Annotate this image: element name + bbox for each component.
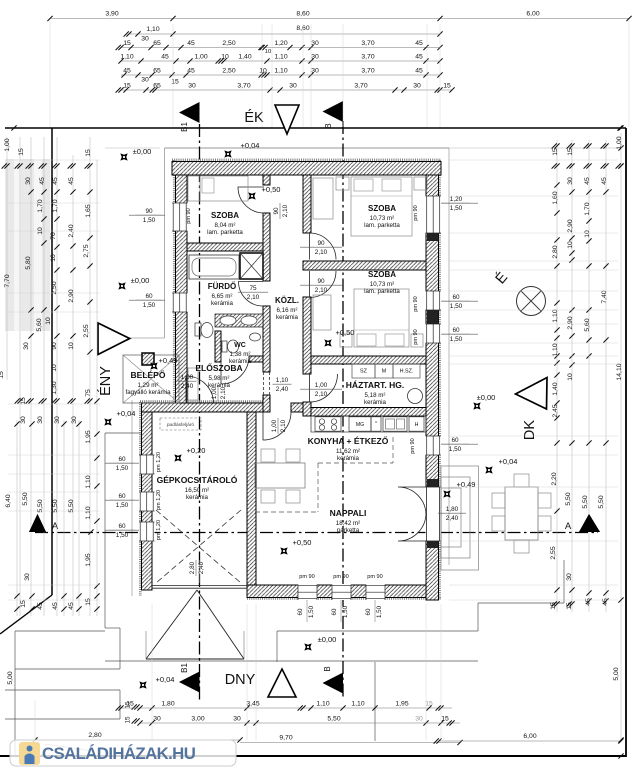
svg-text:45: 45: [52, 177, 59, 185]
svg-text:16,50 m²: 16,50 m²: [185, 487, 209, 494]
svg-text:7,70: 7,70: [4, 274, 11, 287]
svg-text:30: 30: [188, 83, 196, 90]
svg-text:1,10: 1,10: [351, 701, 364, 708]
svg-text:H.SZ.: H.SZ.: [400, 369, 414, 375]
svg-text:HÁZTART. HG.: HÁZTART. HG.: [346, 380, 404, 390]
window garage west 1: [139, 455, 155, 474]
bedroom2 bed: [354, 289, 409, 347]
svg-text:45: 45: [39, 177, 46, 185]
section line A-A: [35, 532, 598, 534]
wall bedroom2/haztartasi: [311, 356, 426, 364]
svg-text:45: 45: [187, 40, 195, 47]
svg-text:B: B: [323, 666, 332, 671]
wall KOZL west upper: [263, 175, 270, 185]
svg-text:6,40: 6,40: [5, 494, 12, 507]
svg-text:3,90: 3,90: [105, 11, 118, 18]
svg-text:1,29 m²: 1,29 m²: [138, 382, 159, 389]
svg-text:1,10: 1,10: [146, 26, 159, 33]
svg-text:30: 30: [289, 83, 297, 90]
entry steps line 1: [5, 689, 120, 691]
svg-text:60: 60: [365, 608, 372, 615]
svg-text:5,00: 5,00: [613, 667, 620, 680]
2,80 leader diagonal: [44, 744, 93, 751]
svg-text:+0,04: +0,04: [499, 457, 518, 466]
svg-text:H: H: [415, 422, 419, 428]
corner basin WC: [250, 333, 261, 341]
bedroom1 nightstands: [336, 177, 349, 190]
window right wall bedroom1 120: [426, 196, 442, 233]
wall garage east: [247, 412, 256, 585]
svg-text:60: 60: [331, 608, 338, 615]
svg-text:30: 30: [23, 342, 30, 350]
svg-text:45: 45: [37, 602, 44, 610]
toilet FURDO: [195, 323, 201, 336]
site boundary bottom: [0, 755, 626, 757]
site boundary left diagonal: [0, 595, 52, 634]
svg-text:2,80: 2,80: [189, 561, 196, 574]
boundary corner ticks: [11, 125, 16, 130]
svg-text:30: 30: [233, 716, 241, 723]
svg-text:30: 30: [311, 54, 319, 61]
svg-text:90: 90: [317, 240, 325, 247]
wall garage west: [142, 412, 153, 590]
svg-text:+0,49: +0,49: [457, 480, 476, 489]
svg-text:9,70: 9,70: [279, 735, 292, 742]
svg-text:45: 45: [161, 54, 169, 61]
svg-text:kerámia: kerámia: [211, 300, 234, 307]
window bottom wall nappali 1: [298, 585, 317, 601]
wall KOZL east seg4: [303, 402, 311, 416]
stove: [315, 417, 341, 431]
entry steps side: [119, 690, 121, 719]
svg-text:2,80: 2,80: [88, 732, 101, 739]
svg-text:3,70: 3,70: [361, 54, 374, 61]
eaves left bottom jog: [129, 337, 165, 339]
wall KOZL west mid: [263, 213, 270, 281]
svg-text:1,10: 1,10: [120, 54, 133, 61]
svg-text:1,70: 1,70: [584, 202, 591, 215]
site boundary top: [5, 127, 626, 129]
svg-text:15: 15: [441, 716, 449, 723]
svg-text:1,00: 1,00: [315, 382, 328, 389]
wall KOZL west bottom stub: [263, 395, 270, 412]
svg-text:6,16 m²: 6,16 m²: [277, 307, 298, 314]
svg-text:5,98 m²: 5,98 m²: [209, 375, 230, 382]
svg-text:10: 10: [50, 254, 57, 262]
door haztartasi: [310, 374, 338, 402]
svg-text:1,95: 1,95: [395, 701, 408, 708]
site boundary right: [625, 128, 627, 757]
svg-text:+0,04: +0,04: [241, 141, 260, 150]
svg-text:5,50: 5,50: [565, 492, 572, 505]
svg-text:3,45: 3,45: [246, 701, 259, 708]
svg-text:30: 30: [566, 573, 573, 581]
svg-text:+0,50: +0,50: [336, 328, 355, 337]
H box: [409, 417, 424, 431]
svg-text:pm 90: pm 90: [333, 574, 349, 580]
svg-text:2,10: 2,10: [280, 419, 287, 432]
svg-text:45: 45: [68, 602, 75, 610]
svg-text:pm 1,20: pm 1,20: [156, 520, 162, 540]
compass DNY open triangle: [268, 669, 296, 697]
insulation strips (gray dotted): [172, 159, 441, 162]
garage gable roof projection: [146, 658, 244, 660]
svg-text:15: 15: [552, 148, 559, 156]
svg-text:30: 30: [141, 36, 149, 43]
svg-text:15: 15: [550, 602, 557, 610]
steps rect A bottom: [15, 668, 120, 670]
svg-text:2,90: 2,90: [567, 316, 574, 329]
compass E (north) circle: [517, 287, 546, 316]
roof eaves right: [448, 148, 450, 565]
svg-text:1,10: 1,10: [85, 475, 92, 488]
window bottom wall nappali 2: [332, 585, 351, 601]
svg-text:45: 45: [415, 40, 423, 47]
svg-text:15: 15: [123, 40, 131, 47]
svg-text:MG: MG: [356, 422, 364, 428]
svg-text:60: 60: [451, 437, 459, 444]
svg-text:10: 10: [567, 241, 574, 249]
svg-text:1,50: 1,50: [450, 205, 463, 212]
section marker A right overlay: [579, 514, 600, 532]
svg-text:2,10: 2,10: [247, 294, 260, 301]
svg-text:30: 30: [413, 83, 421, 90]
kitchen counter: [311, 416, 426, 432]
terrace door leaf 2: [398, 513, 426, 541]
svg-text:1,50: 1,50: [308, 605, 315, 618]
steps top line: [15, 630, 105, 632]
door entry BELEPO: [186, 376, 214, 404]
section line B1: [199, 124, 201, 700]
svg-text:15: 15: [171, 79, 179, 86]
window left wall FURDO 60: [172, 293, 188, 312]
wall exterior right: [426, 175, 439, 600]
top dimension chain row 3: [121, 47, 440, 49]
svg-text:lam. parketta: lam. parketta: [364, 288, 400, 295]
boiler circle: [408, 389, 423, 404]
svg-text:1,50: 1,50: [116, 532, 129, 539]
right dimension column lines: [556, 140, 558, 612]
svg-text:30: 30: [54, 416, 61, 424]
svg-text:65: 65: [153, 40, 161, 47]
svg-text:BELÉPŐ: BELÉPŐ: [131, 369, 166, 380]
svg-text:KONYHA + ÉTKEZŐ: KONYHA + ÉTKEZŐ: [308, 435, 389, 446]
roof eaves top: [165, 147, 450, 149]
svg-text:1,65: 1,65: [85, 204, 92, 217]
svg-text:±0,00: ±0,00: [477, 393, 496, 402]
svg-text:1,00: 1,00: [271, 419, 278, 432]
window right wall bedroom2 b 60: [426, 324, 442, 343]
svg-text:45: 45: [584, 177, 591, 185]
gray shading band left margin: [5, 159, 50, 331]
svg-text:45: 45: [415, 68, 423, 75]
svg-text:1,40: 1,40: [552, 382, 559, 395]
svg-text:1,10: 1,10: [276, 377, 289, 384]
svg-text:±0,00: ±0,00: [133, 147, 152, 156]
south walkway line: [105, 660, 478, 662]
svg-text:45: 45: [52, 602, 59, 610]
svg-text:10: 10: [265, 49, 271, 55]
svg-text:A: A: [565, 521, 572, 532]
svg-text:60: 60: [297, 608, 304, 615]
svg-text:5,50: 5,50: [327, 716, 340, 723]
svg-text:kerámia: kerámia: [364, 399, 387, 406]
svg-text:11,62 m²: 11,62 m²: [336, 448, 360, 455]
svg-text:1,95: 1,95: [85, 553, 92, 566]
svg-text:2,50: 2,50: [51, 281, 58, 294]
svg-text:10,73 m²: 10,73 m²: [370, 215, 394, 222]
svg-text:60: 60: [118, 493, 126, 500]
wall KOZL east seg3: [303, 297, 311, 374]
MG box: [349, 417, 371, 431]
garage door opening: [152, 585, 247, 587]
bedroom1 bed: [351, 177, 412, 236]
svg-text:2,20: 2,20: [551, 472, 558, 485]
svg-text:10: 10: [567, 373, 574, 381]
svg-text:30: 30: [20, 416, 27, 424]
svg-text:30: 30: [24, 573, 31, 581]
eloszoba shoe cabinet: [188, 368, 198, 400]
SZOBA1 wardrobe: [188, 176, 200, 201]
svg-text:30: 30: [567, 177, 574, 185]
svg-text:A: A: [52, 521, 59, 532]
svg-text:kerámia: kerámia: [337, 455, 360, 462]
svg-text:DK: DK: [522, 420, 538, 440]
svg-text:10: 10: [221, 54, 229, 61]
svg-text:90: 90: [145, 208, 153, 215]
outdoor table set: [505, 487, 538, 540]
svg-text:2,40: 2,40: [181, 383, 194, 390]
door bedroom2: [310, 271, 337, 298]
section marker A left: [29, 514, 46, 532]
svg-text:45: 45: [187, 68, 195, 75]
svg-text:pm 90: pm 90: [413, 329, 419, 345]
site boundary left: [51, 128, 53, 595]
svg-text:1,50: 1,50: [450, 303, 463, 310]
svg-text:75: 75: [249, 285, 257, 292]
svg-text:2,45: 2,45: [552, 404, 559, 417]
svg-text:kerámia: kerámia: [186, 494, 209, 501]
svg-text:pm 90: pm 90: [299, 574, 315, 580]
svg-text:2,90: 2,90: [68, 289, 75, 302]
window right wall bedroom2 a 60: [426, 291, 442, 310]
window right wall kitchen 60: [426, 436, 442, 455]
door bedroom1: [310, 233, 337, 260]
svg-text:3,00: 3,00: [191, 716, 204, 723]
bedroom1 wardrobe: [313, 178, 333, 219]
svg-text:5,50: 5,50: [37, 499, 44, 512]
svg-text:KÖZL.: KÖZL.: [275, 296, 299, 305]
SZOBA1 bed: [200, 176, 248, 201]
svg-text:60: 60: [118, 456, 126, 463]
svg-text:3,70: 3,70: [237, 83, 250, 90]
steps rect A right: [119, 628, 121, 669]
right tick marks: [554, 163, 559, 168]
svg-text:pm 90: pm 90: [367, 574, 383, 580]
wall exterior top: [172, 162, 441, 176]
svg-text:1,70: 1,70: [37, 199, 44, 212]
svg-text:2,50: 2,50: [222, 40, 235, 47]
svg-text:±0,00: ±0,00: [131, 276, 150, 285]
entry steps line 2: [5, 718, 120, 720]
dining table: [255, 463, 305, 488]
svg-text:kerámia: kerámia: [276, 314, 299, 321]
svg-text:30: 30: [37, 416, 44, 424]
bottom dimension row 1: [121, 707, 452, 709]
svg-text:2,55: 2,55: [83, 324, 90, 337]
right extension lines: [449, 159, 618, 161]
svg-text:15: 15: [18, 148, 25, 156]
terrace outline: [277, 630, 478, 632]
section flag B bottom: [323, 673, 344, 694]
top dimension chain row 1: [50, 18, 629, 20]
compass DK open triangle: [516, 378, 548, 410]
svg-text:15: 15: [425, 701, 433, 708]
svg-text:2,10: 2,10: [220, 386, 227, 399]
bottom dimension row 3: [35, 739, 240, 741]
svg-text:1,00: 1,00: [194, 54, 207, 61]
svg-text:3,70: 3,70: [361, 40, 374, 47]
svg-text:30: 30: [311, 68, 319, 75]
svg-text:2,90: 2,90: [567, 219, 574, 232]
svg-text:+0,50: +0,50: [262, 185, 281, 194]
svg-text:°: °: [375, 421, 377, 427]
svg-text:15: 15: [443, 83, 451, 90]
svg-text:WC: WC: [234, 342, 246, 349]
svg-text:SZ: SZ: [360, 369, 368, 375]
toilet WC: [222, 341, 227, 352]
svg-text:15: 15: [126, 701, 134, 708]
svg-text:DNY: DNY: [225, 672, 256, 688]
wall kitchen north: [311, 408, 426, 417]
window bottom wall nappali 3: [366, 585, 385, 601]
terrace door opening right wall: [426, 487, 442, 541]
svg-text:6,65 m²: 6,65 m²: [212, 293, 233, 300]
wall KOZL east upper: [303, 175, 311, 233]
svg-text:parketta: parketta: [337, 527, 360, 534]
svg-text:CSALÁDIHÁZAK.HU: CSALÁDIHÁZAK.HU: [42, 744, 196, 763]
svg-text:45: 45: [123, 68, 131, 75]
svg-text:2,10: 2,10: [282, 204, 289, 217]
garage door dim leaders: [199, 560, 201, 583]
section marker A left overlay: [29, 514, 46, 532]
dimension line y148 to right boundary: [449, 147, 621, 149]
svg-text:10: 10: [45, 317, 52, 325]
svg-text:2,40: 2,40: [198, 561, 205, 574]
svg-text:30: 30: [311, 40, 319, 47]
svg-text:1,60: 1,60: [552, 191, 559, 204]
wall exterior bottom: [247, 585, 426, 598]
svg-text:1,10: 1,10: [552, 309, 559, 322]
bottom extension lines: [151, 604, 153, 740]
svg-text:ÉNY: ÉNY: [97, 366, 114, 396]
svg-text:2,75: 2,75: [83, 244, 90, 257]
svg-text:1,80: 1,80: [446, 506, 459, 513]
svg-text:pm 1,20: pm 1,20: [156, 490, 162, 510]
porch column: [142, 353, 154, 365]
svg-text:5,50: 5,50: [582, 495, 589, 508]
svg-text:5,60: 5,60: [584, 318, 591, 331]
svg-text:1,38 m²: 1,38 m²: [230, 351, 251, 358]
svg-text:2,10: 2,10: [315, 249, 328, 256]
svg-text:5,00: 5,00: [7, 671, 14, 684]
svg-text:SZOBA: SZOBA: [368, 204, 396, 213]
svg-text:SZOBA: SZOBA: [368, 270, 396, 279]
wall SZOBA1/FURDO: [187, 243, 263, 251]
svg-text:60: 60: [145, 293, 153, 300]
svg-text:lam. parketta: lam. parketta: [364, 222, 400, 229]
svg-text:1,50: 1,50: [116, 465, 129, 472]
svg-text:1,10: 1,10: [274, 54, 287, 61]
left extension lines: [8, 159, 100, 161]
svg-text:15: 15: [125, 716, 132, 724]
svg-text:fagyálló kerámia: fagyálló kerámia: [125, 389, 171, 396]
compass EK open triangle: [275, 105, 299, 134]
walkway step: [105, 627, 120, 629]
garage eaves left: [131, 400, 133, 596]
wall bedroom1/bedroom2: [303, 261, 426, 270]
svg-text:1,50: 1,50: [116, 502, 129, 509]
svg-text:70: 70: [50, 232, 57, 240]
svg-text:14,10: 14,10: [616, 363, 623, 380]
svg-text:pm 90: pm 90: [413, 205, 419, 221]
svg-text:65: 65: [153, 68, 161, 75]
section marker A right: [579, 514, 600, 532]
haztartasi closet SZ/M/HSZ: [352, 364, 375, 378]
svg-text:SZOBA: SZOBA: [211, 211, 239, 220]
svg-text:65: 65: [153, 83, 161, 90]
svg-text:15: 15: [123, 83, 131, 90]
svg-text:90: 90: [51, 342, 58, 350]
svg-text:1,10: 1,10: [274, 68, 287, 75]
garage dashed X: [156, 510, 241, 583]
svg-text:pm 90: pm 90: [413, 296, 419, 312]
svg-text:5,50: 5,50: [52, 499, 59, 512]
door kitchen: [263, 412, 291, 440]
svg-text:B1: B1: [180, 663, 189, 673]
svg-text:B: B: [324, 123, 333, 128]
svg-text:FÜRDŐ: FÜRDŐ: [208, 282, 236, 291]
bedroom2 nightstands: [340, 334, 352, 347]
left tick marks: [4, 163, 9, 168]
svg-text:15: 15: [20, 600, 27, 608]
shower: [240, 253, 263, 279]
svg-text:10: 10: [584, 230, 591, 238]
dark jamb blocks right wall: [427, 233, 439, 241]
svg-text:1,30: 1,30: [51, 381, 58, 394]
svg-text:1,20: 1,20: [274, 40, 287, 47]
svg-text:+0,50: +0,50: [293, 538, 312, 547]
svg-text:padlásfeljáró: padlásfeljáró: [167, 422, 195, 428]
svg-text:1,00: 1,00: [616, 136, 623, 149]
sink: [383, 417, 407, 431]
svg-text:5,80: 5,80: [25, 256, 32, 269]
svg-text:7,40: 7,40: [601, 290, 608, 303]
wall entry south stub: [291, 403, 311, 412]
svg-text:10: 10: [68, 342, 75, 350]
svg-text:lam. parketta: lam. parketta: [207, 229, 243, 236]
svg-text:6,00: 6,00: [523, 733, 536, 740]
top dimension chain row 4: [121, 60, 440, 62]
svg-text:2,40: 2,40: [446, 515, 459, 522]
svg-text:5,50: 5,50: [68, 499, 75, 512]
section line B: [342, 121, 344, 697]
svg-text:2,10: 2,10: [315, 391, 328, 398]
top dimension chain row 2: [129, 33, 440, 35]
logo watermark csaladihazak.hu: [10, 740, 236, 766]
steps left vertical: [14, 631, 16, 755]
kitchen zone dashed boundary: [255, 511, 318, 513]
